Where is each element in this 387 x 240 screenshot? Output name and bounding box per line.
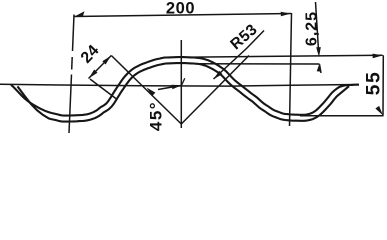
corrugated sheet top surface xyxy=(11,57,359,116)
dimension 55 line xyxy=(382,55,384,115)
svg-text:45°: 45° xyxy=(147,101,166,131)
dimension 200 line xyxy=(74,14,291,17)
wire leader tick xyxy=(182,78,185,85)
wire 24 extension xyxy=(90,79,117,99)
node trough2 centerline xyxy=(290,13,292,126)
wire crest tangent line A xyxy=(183,55,383,57)
wire 45-degree V right leg xyxy=(181,56,249,125)
dimension R53 leader xyxy=(214,31,265,80)
corrugated sheet bottom surface xyxy=(18,63,350,122)
dimension 6,25 line xyxy=(316,2,319,50)
wire horizontal midline xyxy=(0,84,359,86)
svg-text:55: 55 xyxy=(363,71,385,96)
svg-text:6,25: 6,25 xyxy=(304,11,321,46)
wire radius arrow on midline xyxy=(158,85,182,89)
dimension 24 line xyxy=(89,56,112,79)
node trough1 centerline xyxy=(73,15,75,52)
wire 45-degree V left leg xyxy=(111,56,181,125)
wire trough bottom extension xyxy=(300,115,384,117)
node crest centerline xyxy=(180,40,182,128)
svg-text:200: 200 xyxy=(166,0,195,18)
wire inner tangent line B xyxy=(192,63,320,65)
